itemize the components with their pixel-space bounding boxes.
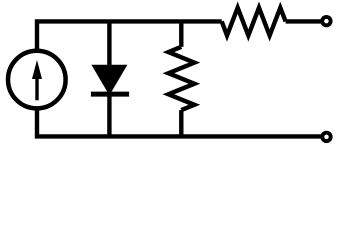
current source I1 arrow	[32, 60, 42, 100]
diode D1 cathode bar	[91, 92, 129, 97]
terminal bottom (open circle)	[322, 133, 330, 141]
resistor R1 (vertical zigzag)	[168, 47, 194, 110]
wire R1 top drop	[179, 21, 183, 46]
wire bottom (from current source bottom corner to output terminal)	[37, 108, 323, 136]
wire diode bottom drop	[107, 94, 111, 136]
resistor R2 (horizontal zigzag, series output)	[222, 8, 286, 36]
wire R1 bottom drop	[179, 110, 183, 136]
wire diode top drop	[107, 21, 111, 66]
current source I1 (circle)	[8, 51, 66, 109]
diode D1 triangle	[91, 65, 127, 96]
wire top (from current source top corner to resistor R2 left end)	[37, 21, 222, 51]
wire R2 to top terminal	[286, 19, 323, 23]
terminal top (open circle)	[322, 17, 330, 25]
